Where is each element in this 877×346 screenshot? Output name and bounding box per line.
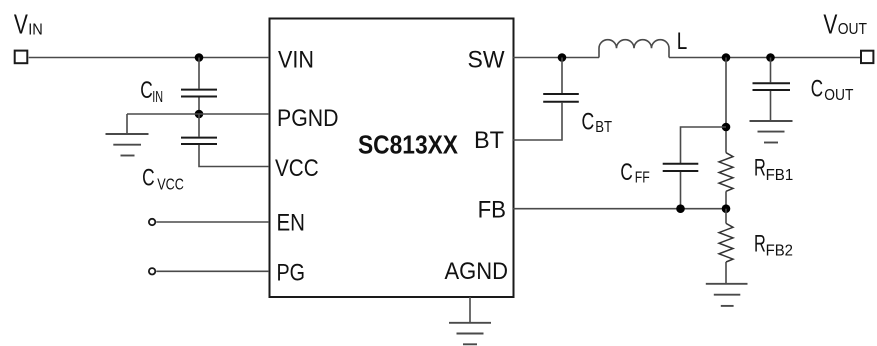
resistor RFB2 [719,223,733,262]
svg-text:VIN: VIN [278,47,314,74]
svg-text:R: R [754,155,766,182]
svg-text:L: L [677,28,688,55]
wire PG [156,270,269,272]
capacitor CVCC [181,138,217,144]
svg-text:VCC: VCC [157,177,184,194]
svg-text:IN: IN [28,21,43,38]
svg-text:C: C [142,164,155,191]
wire CBT to BT pin [513,103,562,140]
svg-text:FF: FF [635,169,650,186]
capacitor COUT [753,83,791,90]
ground (AGND) [449,323,491,345]
wire SW rail [513,57,599,59]
svg-text:PG: PG [277,260,306,287]
node junction PGND net [195,110,204,119]
svg-text:VCC: VCC [275,155,319,182]
svg-text:FB1: FB1 [766,167,794,184]
svg-text:FB2: FB2 [766,243,793,260]
wire AGND stub [469,297,471,322]
wire RFB2 top stub [725,209,727,224]
wire CVCC to VCC pin [199,145,269,167]
wire CBT top stub [561,58,563,94]
svg-text:PGND: PGND [277,105,339,132]
svg-text:V: V [823,9,837,40]
svg-text:EN: EN [277,210,306,237]
terminal VOUT (output square) [861,51,873,63]
capacitor CFF [663,164,699,171]
wire COUT top stub [770,58,772,83]
svg-text:FB: FB [478,197,506,224]
node junction on VIN rail [195,53,204,62]
svg-text:OUT: OUT [838,21,867,38]
wire RFB2 bottom stub [725,262,727,283]
wire CFF top branch [681,127,727,163]
svg-text:C: C [620,159,632,186]
wire CFF bottom stub [680,172,682,209]
svg-text:R: R [754,230,766,257]
svg-text:SW: SW [468,47,505,74]
svg-text:SC813XX: SC813XX [358,130,459,160]
wire CIN top stub [198,58,200,89]
node junction CFF top [722,123,731,132]
ground (RFB2) [706,284,748,306]
wire input rail [29,57,269,59]
svg-text:C: C [140,77,153,104]
node junction FB divider [722,204,731,213]
wire PGND rail [127,113,269,115]
node junction COUT tap [766,53,775,62]
wire feedback vertical upper [725,58,727,153]
svg-text:IN: IN [152,89,163,106]
wire CIN bottom stub [198,98,200,115]
svg-text:C: C [582,108,595,135]
svg-text:V: V [14,9,28,40]
wire CVCC top stub [198,114,200,137]
node junction SW/CBT [558,53,567,62]
svg-text:BT: BT [474,127,504,154]
EN open terminal circle [149,219,155,225]
capacitor CIN [181,90,217,97]
wire FB rail [513,208,726,210]
ground (COUT) [750,121,793,143]
inductor L [599,40,669,58]
wire output rail [669,57,860,59]
svg-text:OUT: OUT [824,87,853,104]
node junction feedback tap [722,53,731,62]
terminal VIN (input square) [15,51,28,64]
wire RFB1 bottom stub [725,191,727,208]
svg-text:C: C [811,76,823,103]
svg-text:BT: BT [595,119,612,136]
wire ground stub left [126,114,128,134]
node junction CFF bottom [676,204,685,213]
capacitor CBT [543,94,579,102]
wire COUT bottom stub [770,91,772,121]
wire EN [156,221,269,223]
resistor RFB1 [719,153,733,192]
ground (input) [106,134,149,156]
PG open terminal circle [149,268,155,274]
svg-text:AGND: AGND [445,258,509,285]
IC U1 SC813XX body [270,19,514,298]
